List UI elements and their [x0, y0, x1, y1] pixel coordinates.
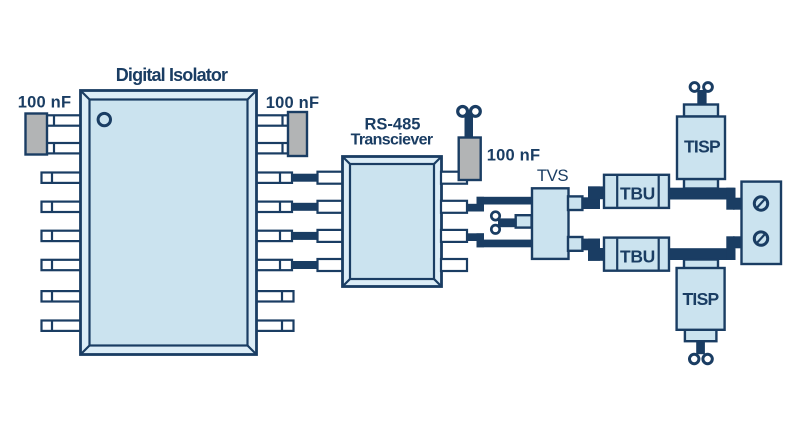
- TISP D3 earth stem: [696, 341, 705, 354]
- digital isolator U1 left pin row 5: [42, 231, 82, 241]
- digital isolator U1 right pin row 4: [256, 202, 292, 212]
- digital isolator U1 right pin row 6: [256, 260, 292, 270]
- RS-485 transceiver U2 body: [343, 157, 442, 287]
- digital isolator U1 left pin row 6: [42, 260, 82, 270]
- bus terminal posts (node A/B tap): [491, 212, 516, 234]
- TBU T2 body: [604, 238, 669, 271]
- digital isolator U1 body: [81, 91, 257, 355]
- TISP D2 bottom cap: [684, 179, 718, 189]
- capacitor C3 (100 nF): [459, 138, 481, 181]
- TISP D2 earth stem: [697, 90, 706, 106]
- TBU T1 body: [604, 175, 669, 208]
- svg-text:TISP: TISP: [682, 289, 719, 309]
- wire U2 pin 2 (A line) to TVS: [467, 197, 535, 212]
- wire U1 row 3 to U2 pin 1: [291, 174, 318, 182]
- digital isolator U1 right pin row 5: [256, 231, 292, 241]
- supply terminal posts above C3: [458, 107, 468, 117]
- digital isolator U1 left pin row 3: [42, 173, 82, 183]
- TISP D2 earth terminal posts: [690, 83, 699, 92]
- RS-485 transceiver U2 right pin 1: [441, 172, 467, 184]
- wire U1 row 6 to U2 pin 4: [291, 261, 318, 269]
- svg-text:TVS: TVS: [537, 166, 568, 185]
- svg-text:Transciever: Transciever: [351, 132, 433, 149]
- digital isolator U1 left pin row 7: [42, 291, 82, 301]
- wire U1 row 4 to U2 pin 2: [291, 203, 318, 211]
- U1 pin 1 indicator dot: [98, 113, 110, 125]
- RS-485 transceiver U2 right pin 2: [441, 201, 467, 213]
- TVS diode D1 body: [532, 188, 569, 259]
- svg-text:100 nF: 100 nF: [266, 94, 319, 112]
- capacitor C3 supply stem: [465, 112, 474, 139]
- J1 screw terminal 2: [754, 232, 767, 245]
- J1 screw terminal 1: [754, 197, 767, 210]
- RS-485 transceiver U2 right pin 3: [441, 230, 467, 242]
- RS-485 transceiver U2 left pin 2: [318, 201, 344, 213]
- RS-485 transceiver U2 left pin 4: [318, 259, 344, 271]
- RS-485 transceiver U2 left pin 1: [318, 172, 344, 184]
- capacitor C1 pin to U1 row 2: [47, 143, 82, 153]
- TVS mid pin pad: [516, 215, 532, 227]
- capacitor C1 (100 nF): [26, 114, 48, 155]
- svg-text:Digital Isolator: Digital Isolator: [116, 65, 228, 85]
- TVS right pin pad B: [568, 237, 582, 251]
- svg-text:100 nF: 100 nF: [487, 147, 540, 165]
- digital isolator U1 right pin row 7: [256, 291, 294, 301]
- wire TBU T2 to terminal J1 (lower line): [669, 236, 742, 260]
- RS-485 transceiver U2 left pin 3: [318, 230, 344, 242]
- svg-text:TISP: TISP: [684, 137, 721, 157]
- digital isolator U1 right pin row 3: [256, 173, 292, 183]
- wire TBU T1 to terminal J1 (upper line): [669, 188, 742, 210]
- wire U1 row 5 to U2 pin 3: [291, 232, 318, 240]
- svg-text:100 nF: 100 nF: [18, 94, 71, 112]
- TISP D3 body: [677, 268, 725, 330]
- wire U2 pin 3 (B line) to TVS: [467, 233, 535, 247]
- digital isolator U1 right pin row 8: [256, 321, 294, 331]
- svg-text:TBU: TBU: [620, 246, 655, 266]
- terminal block J1: [742, 182, 782, 264]
- digital isolator U1 left pin row 4: [42, 202, 82, 212]
- svg-text:TBU: TBU: [620, 184, 655, 204]
- capacitor C2 (100 nF): [288, 112, 307, 156]
- TISP D3 top cap: [684, 260, 718, 270]
- wire TVS pad B to TBU T2: [582, 239, 605, 261]
- capacitor C2 pin to U1 row 2: [256, 143, 288, 153]
- capacitor C2 pin to U1 row 1: [256, 115, 288, 125]
- TISP D2 body: [677, 117, 725, 180]
- wire TVS pad A to TBU T1: [582, 186, 605, 209]
- digital isolator U1 left pin row 8: [42, 321, 82, 331]
- capacitor C1 pin to U1 row 1: [47, 115, 82, 125]
- RS-485 transceiver U2 right pin 4: [441, 259, 467, 271]
- TISP D2 top cap: [684, 105, 718, 117]
- TISP D3 earth terminal posts: [690, 354, 699, 363]
- TISP D3 bottom cap: [685, 330, 717, 341]
- TVS right pin pad A: [568, 196, 582, 210]
